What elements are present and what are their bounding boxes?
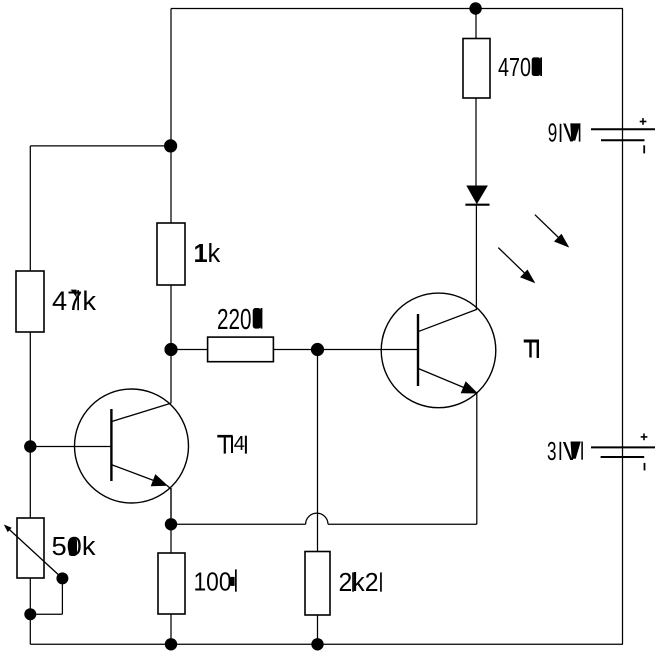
wire pot wiper horizontal [30, 613, 62, 615]
wire 2k2 bottom to bottom rail [317, 615, 319, 644]
svg-text:2k2: 2k2 [339, 569, 379, 597]
wire hop over 2k2 column [306, 513, 328, 524]
transistor T4 body circle [75, 389, 189, 503]
value label 47k [52, 286, 97, 316]
resistor 470 [463, 39, 490, 99]
node junction T4 emitter / hop wire / 100 top [165, 518, 177, 530]
node junction bottom rail / 100 column [165, 638, 177, 650]
resistor 2k2 [305, 552, 330, 616]
LED D1 cathode bar [465, 204, 489, 206]
node junction top-left wire / column x171 [164, 139, 177, 152]
battery B1 minus sign [643, 145, 645, 153]
wire right rail [622, 9, 624, 645]
battery B1 9V short plate [601, 139, 645, 141]
LED D1 triangle [466, 186, 488, 205]
wire left rail lower segment [29, 578, 31, 644]
wire bottom rail [30, 643, 623, 645]
wire top-left horizontal [30, 145, 171, 147]
value label 470 ohm [498, 54, 542, 82]
transistor T1 label [524, 341, 539, 358]
wire node down to 2k2 top (passes under hop) [317, 350, 319, 552]
wire node to 100 top [170, 524, 172, 553]
wire emitter row right part [328, 523, 477, 525]
wire 1k bottom to node [170, 285, 172, 350]
wire 100 bottom to bottom rail [170, 614, 172, 644]
resistor 100 [158, 553, 185, 614]
wire column x171 from top rail to 1k [170, 9, 172, 224]
light emission arrow lower [498, 248, 535, 284]
node junction wiper return / left rail [24, 608, 36, 620]
value label 1k [194, 240, 221, 268]
battery B2 3V long plate [591, 446, 655, 448]
value label 2k2 [339, 569, 382, 597]
node junction bottom rail / 2k2 column [311, 638, 323, 650]
battery B2 plus sign [641, 434, 648, 441]
wire LED cathode to T1 collector [475, 205, 477, 311]
svg-text:1: 1 [194, 240, 208, 268]
transistor T4 collector lead [111, 403, 170, 421]
transistor T1 body circle [381, 293, 496, 408]
wire left rail upper segment [29, 146, 31, 271]
wire T1 emitter vertical [476, 394, 478, 525]
battery B1 9V long plate [591, 128, 655, 130]
wire T4 collector vertical [170, 350, 172, 404]
transistor T4 emitter lead [111, 465, 171, 525]
svg-text:9: 9 [548, 120, 558, 148]
wire top rail [171, 8, 623, 10]
resistor 47k [16, 271, 44, 332]
wire T1 base [318, 349, 419, 351]
svg-text:k: k [208, 240, 221, 268]
battery B1 value label 9V [548, 120, 581, 148]
potentiometer 50k body [17, 518, 44, 578]
wire 220 right to node [273, 349, 317, 351]
svg-text:3: 3 [547, 438, 557, 466]
battery B2 value label 3V [547, 438, 583, 466]
wire node to 220 left [171, 349, 208, 351]
wire 470 bottom to LED anode [475, 98, 477, 186]
wire top dot to 470 top [475, 9, 477, 39]
node junction left rail / T4 base [24, 440, 36, 452]
value label 100 ohm [194, 569, 237, 597]
node junction 1k bottom / 220 left / T4 collector [164, 343, 177, 356]
resistor 1k [157, 223, 185, 285]
potentiometer wiper arrow [4, 525, 63, 579]
svg-text:100: 100 [194, 569, 232, 597]
transistor T1 emitter lead [418, 368, 478, 393]
transistor T1 base bar [417, 314, 419, 386]
wire pot wiper vertical [61, 578, 63, 614]
wire T4 base [30, 446, 111, 448]
battery B1 plus sign [640, 118, 647, 125]
node junction 220 right / T1 base / 2k2 column [311, 343, 324, 356]
wire left rail middle segment [29, 332, 31, 518]
transistor T4 label [217, 433, 246, 455]
svg-text:470: 470 [498, 54, 531, 82]
svg-text:4: 4 [234, 433, 245, 455]
transistor T4 base bar [110, 409, 112, 481]
node junction top rail / 470 column [469, 2, 481, 14]
battery B2 3V short plate [601, 456, 645, 458]
transistor T1 collector lead [418, 309, 477, 331]
resistor 220 [208, 337, 274, 362]
value label 50k [52, 533, 96, 561]
wire emitter row left part [171, 523, 306, 525]
light emission arrow upper [535, 215, 569, 248]
battery B2 minus sign [644, 463, 646, 471]
node junction pot wiper [56, 572, 68, 584]
value label 220 ohm [217, 304, 262, 336]
svg-text:220: 220 [217, 304, 252, 336]
